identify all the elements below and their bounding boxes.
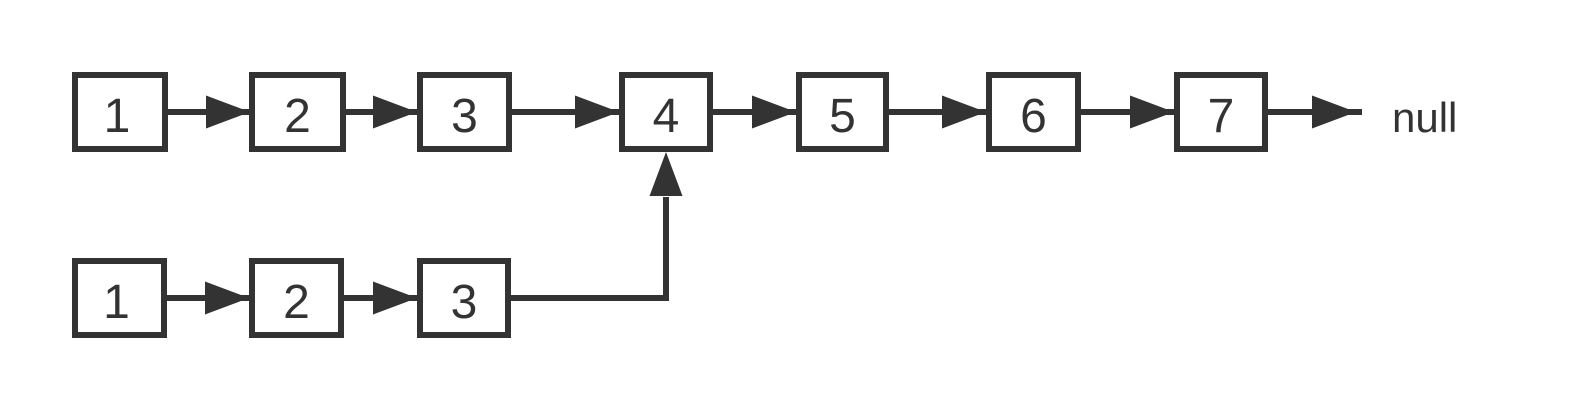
svg-text:1: 1 [103, 276, 130, 329]
wire B1->B2 [167, 295, 249, 301]
svg-text:3: 3 [451, 90, 478, 143]
node B2 (list B, value 2) [252, 261, 341, 335]
svg-text:6: 6 [1020, 90, 1047, 143]
node C7 (shared node, value 7) [1177, 75, 1265, 149]
arrowhead B2->B3 [373, 282, 417, 315]
svg-text:2: 2 [284, 90, 311, 143]
arrowhead C6->C7 [1130, 96, 1174, 129]
wire A3->C4 [512, 109, 619, 115]
arrowhead C4->C5 [752, 96, 796, 129]
wire B3->C4 elbow [511, 197, 666, 298]
node A3 (list A, value 3) [420, 75, 509, 149]
wire B2->B3 [344, 295, 417, 301]
arrowhead B1->B2 [205, 282, 249, 315]
wire C4->C5 [713, 109, 796, 115]
node B3 (list B, value 3) [420, 261, 508, 335]
node C6 (shared node, value 6) [989, 75, 1078, 149]
wire C6->C7 [1081, 109, 1174, 115]
arrowhead A3->C4 [575, 96, 619, 129]
wire C5->C6 [889, 109, 986, 115]
svg-text:4: 4 [653, 90, 680, 143]
svg-text:1: 1 [104, 90, 131, 143]
arrowhead C7->null [1312, 96, 1356, 129]
arrowhead A2->A3 [373, 96, 417, 129]
svg-text:7: 7 [1208, 90, 1235, 143]
node A1 (list A, value 1) [75, 75, 165, 149]
wire C7->null [1268, 109, 1362, 115]
node C5 (shared node, value 5) [799, 75, 886, 149]
arrowhead C5->C6 [942, 96, 986, 129]
svg-text:5: 5 [829, 90, 856, 143]
wire A1->A2 [168, 109, 250, 115]
svg-text:2: 2 [283, 276, 310, 329]
arrowhead A1->A2 [206, 96, 250, 129]
node A2 (list A, value 2) [252, 75, 343, 149]
node B1 (list B, value 1) [75, 261, 164, 335]
node C4 (shared node, value 4) [622, 75, 710, 149]
arrowhead B3->C4 [650, 152, 683, 196]
wire A2->A3 [346, 109, 417, 115]
svg-text:3: 3 [451, 276, 478, 329]
svg-text:null: null [1392, 94, 1457, 141]
